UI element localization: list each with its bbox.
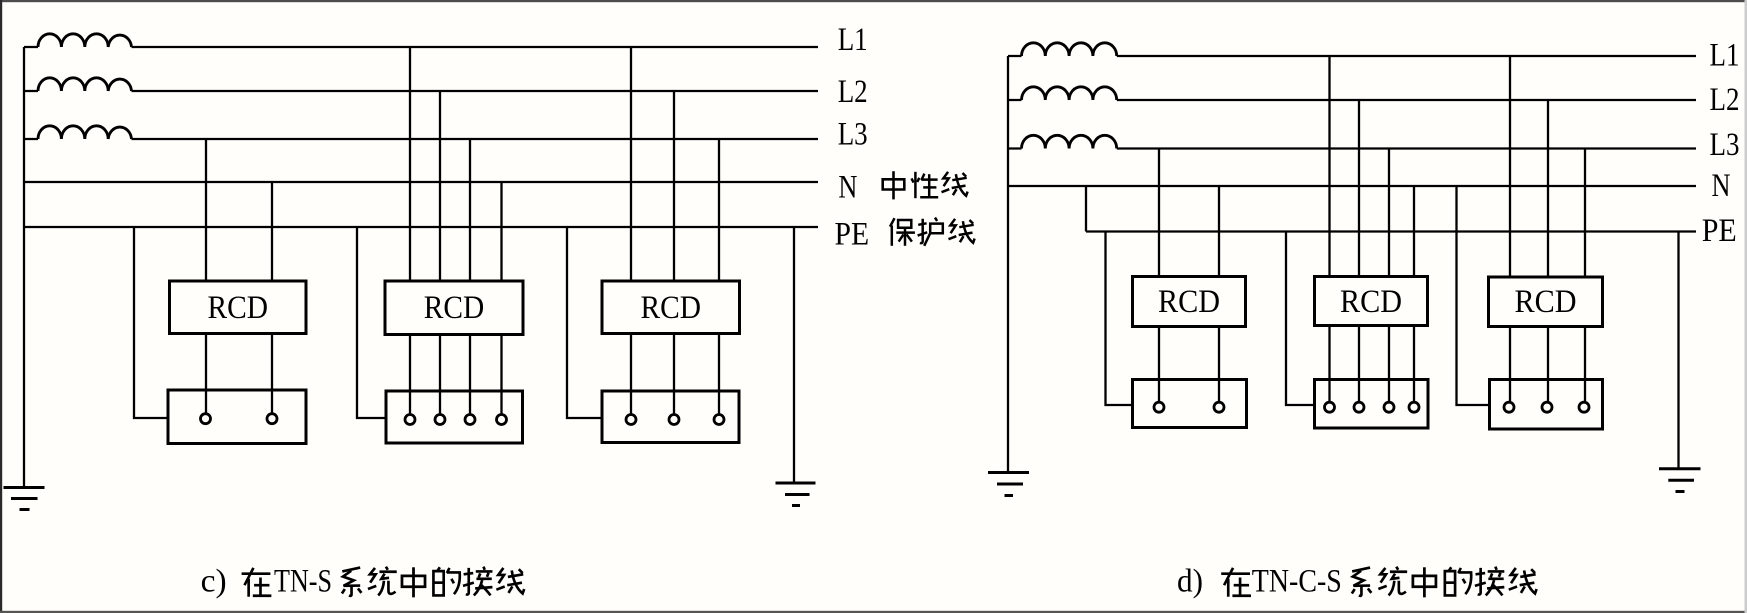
svg-text:N: N [838, 169, 857, 205]
wire L2 bus (left diagram) [24, 90, 818, 92]
RCD3 box (right diagram) [1489, 277, 1603, 327]
load box 2 (left diagram) [386, 391, 523, 443]
svg-text:d): d) [1177, 564, 1203, 600]
wire PE drop to load2 (right diagram) [1286, 232, 1315, 406]
wire N tap to RCD2 (left diagram) [500, 182, 502, 281]
wire L3 tap to RCD3 (left diagram) [718, 139, 720, 281]
wire N tap to RCD2 (right diagram) [1413, 186, 1415, 277]
RCD2 box (right diagram) [1315, 277, 1428, 326]
wire L1 tap to RCD2 (right diagram) [1328, 56, 1330, 277]
terminal circles load1 (left diagram) [201, 414, 211, 424]
RCD1 box (left diagram) [170, 281, 307, 334]
svg-text:RCD: RCD [1515, 284, 1577, 320]
wire PE drop to load1 (left diagram) [134, 227, 168, 418]
svg-text:TN-S: TN-S [274, 564, 332, 600]
wire L3 bus (right diagram) [1008, 147, 1696, 149]
wire L1 tap to RCD3 (left diagram) [630, 47, 632, 281]
ground symbol left (right diagram) [988, 473, 1029, 496]
svg-text:PE: PE [835, 217, 870, 253]
RCD2 box (left diagram) [385, 281, 523, 335]
terminal circles load3 (right diagram) [1504, 402, 1514, 412]
ground symbol left (left diagram) [4, 488, 45, 510]
wire N bus (left diagram) [24, 181, 818, 183]
wire PE drop to load3 (left diagram) [567, 227, 602, 418]
wire L1 tap to RCD2 (left diagram) [409, 47, 411, 281]
wire L2 tap to RCD3 (left diagram) [673, 91, 675, 281]
load box 1 (left diagram) [168, 390, 306, 444]
wire RCD1 outputs (right diagram) [1159, 327, 1219, 402]
inductor coil on L3 (left diagram) [38, 126, 132, 139]
load box 2 (right diagram) [1315, 380, 1429, 429]
inductor coil on L1 (right diagram) [1022, 43, 1117, 56]
wire PE drop to load2 (left diagram) [357, 227, 386, 418]
page border frame [0, 0, 1747, 2]
wire PE bus (left diagram) [24, 226, 818, 228]
caption 系统中的接线 (left) [342, 568, 362, 596]
label baohuxian 保护线 (left diagram) [890, 218, 915, 246]
svg-text:TN-C-S: TN-C-S [1252, 564, 1342, 600]
wire L1 tap to RCD3 (right diagram) [1509, 56, 1511, 277]
load box 3 (left diagram) [602, 391, 739, 443]
wire L3 tap to RCD1 (right diagram) [1158, 149, 1160, 277]
wire L2 tap to RCD2 (right diagram) [1358, 100, 1360, 277]
svg-text:RCD: RCD [424, 290, 485, 326]
wire RCD1 output 2 (left diagram) [271, 334, 273, 414]
svg-text:L1: L1 [838, 22, 868, 58]
inductor coil on L3 (right diagram) [1022, 135, 1117, 148]
wire L1 bus (left diagram) [24, 46, 818, 48]
ground symbol right (right diagram) [1659, 469, 1701, 492]
wire L2 tap to RCD2 (left diagram) [439, 91, 441, 281]
svg-text:L2: L2 [1710, 82, 1740, 118]
svg-text:L1: L1 [1710, 38, 1740, 74]
wire left source vertical to ground (left diagram) [23, 47, 25, 487]
wire L2 tap to RCD3 (right diagram) [1547, 100, 1549, 277]
caption zai 在 (left) [242, 568, 272, 597]
wire left source vertical to ground (right diagram) [1007, 56, 1009, 472]
svg-text:PE: PE [1702, 213, 1737, 249]
terminal circles load2 (left diagram) [405, 415, 415, 425]
svg-text:c): c) [201, 564, 227, 600]
wire PE to right ground (right diagram) [1677, 232, 1679, 469]
label zhongxingxian 中性线 (left diagram) [883, 171, 905, 199]
svg-text:L2: L2 [838, 74, 868, 110]
wire RCD1 output 1 (left diagram) [205, 334, 207, 414]
RCD3 box (left diagram) [602, 281, 740, 334]
wire L2 bus (right diagram) [1008, 99, 1696, 101]
wire L3 tap to RCD2 (right diagram) [1388, 149, 1390, 277]
svg-text:L3: L3 [1710, 127, 1740, 163]
terminal circles load2 (right diagram) [1325, 402, 1335, 412]
load box 3 (right diagram) [1490, 380, 1603, 430]
wire L3 tap to RCD1 (left diagram) [205, 139, 207, 281]
ground symbol right (left diagram) [776, 483, 816, 506]
wire N drop to load3 (right diagram) [1457, 186, 1490, 405]
wire L1 bus (right diagram) [1008, 55, 1696, 57]
terminal circles load1 (right diagram) [1154, 402, 1164, 412]
wire RCD2 outputs (right diagram) [1330, 326, 1415, 402]
wire L3 tap to RCD2 (left diagram) [469, 139, 471, 281]
svg-text:RCD: RCD [1340, 284, 1402, 320]
wire L3 tap to RCD3 (right diagram) [1584, 149, 1586, 278]
caption zai 在 (right) [1221, 568, 1251, 597]
RCD1 box (right diagram) [1133, 277, 1246, 327]
inductor coil on L2 (left diagram) [38, 78, 132, 91]
svg-text:L3: L3 [838, 117, 868, 153]
wire N tap to RCD1 (right diagram) [1218, 186, 1220, 277]
inductor coil on L1 (left diagram) [38, 34, 132, 47]
wire RCD2 outputs (left diagram) [410, 335, 502, 415]
wire L3 bus (left diagram) [24, 138, 818, 140]
svg-text:RCD: RCD [641, 290, 702, 326]
wire RCD3 outputs (right diagram) [1510, 327, 1585, 402]
svg-text:N: N [1712, 168, 1731, 204]
wire N bus (right diagram) [1008, 185, 1696, 187]
terminal circles load3 (left diagram) [626, 415, 636, 425]
wire N to PE branch (right diagram) [1085, 186, 1087, 232]
svg-text:RCD: RCD [1158, 284, 1220, 320]
wire RCD3 outputs (left diagram) [631, 334, 719, 415]
load box 1 (right diagram) [1133, 380, 1247, 428]
svg-text:RCD: RCD [208, 290, 269, 326]
wire PE to right ground (left diagram) [793, 227, 795, 483]
inductor coil on L2 (right diagram) [1022, 87, 1117, 100]
wire PE drop to load1 (right diagram) [1106, 232, 1133, 406]
wire PE bus (right diagram) [1086, 230, 1696, 232]
caption 系统中的接线 (right) [1352, 568, 1372, 596]
wire N tap to RCD1 (left diagram) [271, 182, 273, 281]
